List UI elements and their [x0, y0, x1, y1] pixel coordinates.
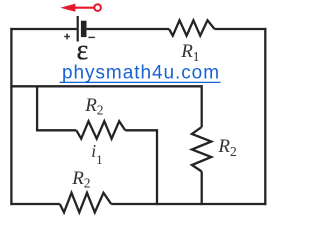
resistor R1 (zigzag)	[169, 20, 215, 35]
watermark underline	[60, 81, 221, 83]
resistor R2 bottom (zigzag)	[60, 193, 111, 213]
wire bottom edge right segment	[111, 203, 266, 205]
label - (battery negative)	[88, 36, 95, 38]
wire top edge between battery and R1	[87, 28, 169, 30]
svg-text:R1: R1	[180, 41, 199, 64]
wire right edge	[264, 28, 266, 205]
label + (battery positive)	[64, 34, 70, 40]
resistor R2 middle horizontal (zigzag)	[76, 121, 125, 139]
battery EMF source: long positive plate	[77, 16, 79, 42]
wire inner branch from middle wire down and right	[37, 86, 76, 130]
svg-text:ε: ε	[77, 35, 89, 66]
svg-text:R2: R2	[71, 168, 90, 191]
wire top edge left of battery	[10, 28, 76, 30]
wire left edge	[10, 28, 12, 205]
wire below vertical R2	[201, 172, 203, 206]
wire top edge right of R1	[215, 28, 267, 30]
resistor R2 right vertical (zigzag)	[192, 127, 211, 172]
battery EMF source: short thick negative plate	[81, 21, 87, 37]
svg-text:R2: R2	[217, 136, 236, 159]
current direction arrow (red) tail circle	[94, 4, 101, 11]
svg-text:physmath4u.com: physmath4u.com	[62, 63, 220, 84]
current direction arrow (red) shaft	[74, 7, 94, 9]
wire bottom edge left segment	[10, 203, 59, 205]
svg-text:i1: i1	[91, 141, 102, 167]
wire from middle R2 to corner down to bottom	[125, 130, 157, 205]
svg-text:R2: R2	[84, 95, 103, 118]
wire middle horizontal with corner down to vertical R2	[10, 86, 201, 127]
current direction arrow (red) head	[60, 4, 75, 12]
